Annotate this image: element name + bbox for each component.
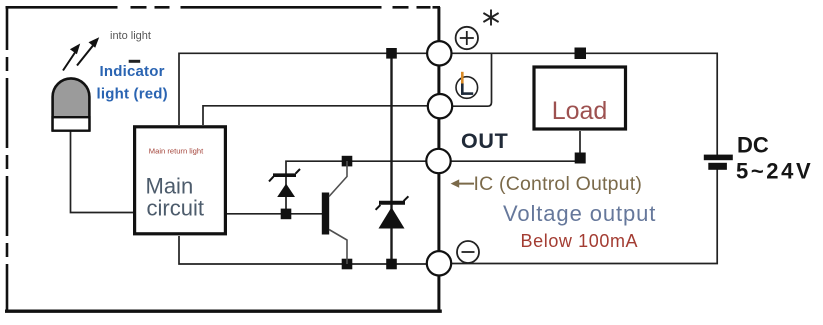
terminal 4: [427, 251, 451, 275]
svg-text:IC (Control Output): IC (Control Output): [474, 173, 643, 195]
wire: internal output node from zener ZD1 top to terminal 3: [286, 161, 426, 211]
svg-text:light (red): light (red): [97, 86, 168, 103]
svg-text:Indicator: Indicator: [100, 63, 165, 80]
terminal 3: [426, 149, 450, 173]
wire: main circuit to terminal 1 (+V rail): [179, 53, 427, 125]
plus polarity symbol: [456, 27, 478, 49]
wire: load bottom drop: [579, 131, 581, 161]
zener diode ZD1: [269, 169, 300, 197]
battery DC source plates: [704, 155, 733, 170]
junction: load top on +V rail: [575, 48, 587, 60]
indicator light label: [97, 60, 168, 103]
terminal 1: [427, 41, 451, 65]
light emission arrows: [63, 37, 99, 70]
wire: indicator light to main circuit: [71, 131, 134, 213]
battery label DC 5~24V: [736, 133, 813, 184]
junction: transistor collector on output wire: [342, 156, 353, 167]
svg-text:Below 100mA: Below 100mA: [521, 231, 639, 251]
wire: terminal 1 to load top and battery positive: [451, 53, 717, 155]
terminal 2: [428, 94, 452, 118]
junction: load bottom on output wire: [575, 153, 586, 164]
asterisk note marker: [483, 10, 498, 26]
sensor outline top dash-dot border: [6, 6, 441, 9]
wire: transistor base: [227, 213, 323, 215]
sensor outline left dashed border: [6, 6, 9, 311]
svg-text:circuit: circuit: [147, 196, 204, 221]
L terminal symbol: [456, 72, 478, 98]
junction: ZD2 branch on +V rail: [386, 48, 397, 59]
wire: strap from terminal 2 up to +V rail: [452, 53, 492, 106]
junction: ZD2 anode on 0V rail: [386, 259, 397, 270]
svg-text:Voltage output: Voltage output: [503, 201, 656, 226]
svg-text:Main return light: Main return light: [149, 147, 204, 156]
wire: 0V rail from main circuit to terminal 4: [179, 236, 427, 264]
svg-text:OUT: OUT: [461, 129, 508, 153]
sensor outline bottom border: [5, 310, 442, 313]
svg-text:into light: into light: [110, 30, 151, 42]
wire: main circuit to terminal 2: [203, 106, 428, 125]
main circuit box: [135, 127, 226, 234]
wire: terminal 3 to load bottom: [450, 160, 580, 162]
svg-text:Load: Load: [552, 97, 608, 125]
junction: ZD1 anode on base wire: [281, 209, 292, 220]
junction: transistor emitter on 0V rail: [342, 259, 353, 270]
wire: zener ZD2 branch from +V rail to 0V rail: [390, 53, 392, 264]
wire: terminal 4 to battery negative: [451, 169, 717, 264]
zener diode ZD2: [376, 196, 409, 228]
main circuit label: [146, 174, 204, 221]
svg-text:DC: DC: [737, 133, 769, 158]
IC control output note: [451, 173, 642, 195]
indicator light dome: [53, 78, 90, 130]
transistor Q1: [322, 161, 347, 264]
terminal bus vertical wire: [437, 7, 440, 311]
minus polarity symbol: [457, 241, 479, 263]
svg-text:5~24V: 5~24V: [736, 159, 813, 184]
load box: [534, 67, 626, 129]
